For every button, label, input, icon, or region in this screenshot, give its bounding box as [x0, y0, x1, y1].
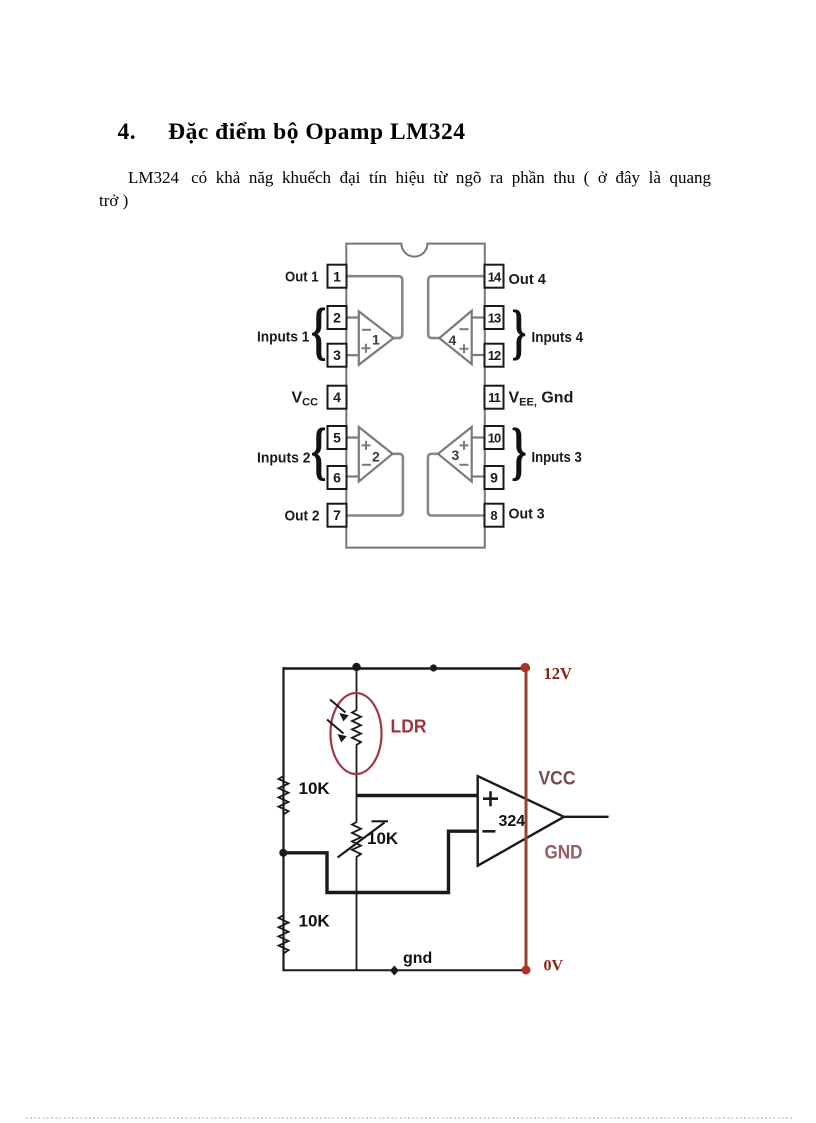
IC body: [346, 244, 485, 548]
wire pin2 stub: [347, 316, 360, 318]
wire bottom rail: [284, 969, 526, 971]
wire pin10 stub: [472, 436, 485, 438]
pin 5 box: [328, 426, 347, 449]
junction dot gnd: [390, 966, 399, 976]
svg-text:7: 7: [333, 507, 341, 523]
pin 4 box: [328, 386, 347, 409]
svg-text:12: 12: [488, 348, 501, 363]
svg-text:4: 4: [333, 389, 341, 405]
svg-text:Out 4: Out 4: [509, 271, 547, 288]
pin 9 box: [485, 466, 504, 489]
op-amp U3: [438, 427, 472, 482]
svg-text:324: 324: [499, 813, 526, 830]
svg-text:GND: GND: [545, 843, 583, 864]
paragraph line 1: [99, 168, 711, 188]
LM324 pinout diagram: [250, 236, 590, 552]
junction dot left divider: [279, 849, 287, 857]
footer dotted rule: [26, 1117, 792, 1119]
wire pin6 stub: [347, 475, 360, 477]
svg-text:Inputs 1: Inputs 1: [257, 329, 309, 346]
svg-text:Out 3: Out 3: [509, 506, 545, 523]
op-amp U1: [359, 311, 394, 364]
svg-text:1: 1: [333, 269, 341, 285]
junction dot top mid: [430, 664, 437, 671]
junction dot 12V: [521, 663, 530, 672]
LDR photoresistor body: [352, 668, 361, 796]
pin 10 box: [485, 426, 504, 449]
pin 12 box: [485, 344, 504, 367]
wire pin12 stub: [472, 354, 485, 356]
pin 6 box: [328, 466, 347, 489]
svg-text:}: }: [511, 415, 527, 487]
potentiometer arrow: [338, 823, 385, 858]
svg-text:10K: 10K: [367, 829, 399, 848]
heading: [118, 119, 466, 146]
wire 12V red rail: [525, 668, 528, 971]
wire pin1 feedback to op-amp U1 output: [347, 276, 403, 338]
LDR arrow 1: [330, 700, 346, 713]
svg-text:13: 13: [488, 311, 501, 326]
paragraph line 2: [99, 191, 128, 211]
svg-text:4: 4: [449, 332, 457, 348]
svg-text:12V: 12V: [544, 664, 573, 683]
wire op-amp U3 output to pin8: [428, 454, 485, 516]
pin 7 box: [328, 504, 347, 527]
junction dot 0V: [522, 966, 531, 975]
wire pin14 feedback to op-amp U4 output: [428, 276, 484, 338]
junction dot top LDR: [352, 663, 360, 671]
wire output: [564, 816, 609, 818]
svg-text:8: 8: [490, 508, 497, 523]
svg-text:Inputs 2: Inputs 2: [257, 450, 311, 467]
LDR arrow 2: [327, 720, 344, 734]
svg-text:5: 5: [333, 430, 341, 446]
wire top rail: [284, 667, 531, 669]
wire pin5 stub: [347, 436, 360, 438]
wire left rail: [282, 667, 284, 971]
pin 3 box: [328, 344, 347, 367]
svg-text:VEE, Gnd: VEE, Gnd: [509, 390, 574, 409]
svg-text:14: 14: [488, 270, 502, 285]
svg-text:LDR: LDR: [391, 717, 427, 737]
wire non-inverting input: [357, 794, 478, 798]
potentiometer VR1 10K: [352, 796, 361, 971]
svg-text:VCC: VCC: [292, 390, 319, 409]
svg-text:10: 10: [488, 431, 501, 446]
svg-text:Inputs 3: Inputs 3: [532, 449, 582, 466]
svg-text:2: 2: [372, 449, 380, 465]
svg-text:3: 3: [452, 447, 460, 463]
svg-text:1: 1: [372, 332, 380, 348]
svg-text:VCC: VCC: [539, 769, 576, 790]
wire pin9 stub: [472, 475, 485, 477]
svg-text:Inputs 4: Inputs 4: [532, 329, 584, 346]
svg-text:6: 6: [333, 470, 341, 486]
svg-text:10K: 10K: [299, 912, 331, 931]
resistor R1 10K: [279, 667, 289, 853]
svg-text:Out 1: Out 1: [285, 269, 319, 286]
pin 1 box: [328, 265, 347, 288]
svg-text:3: 3: [333, 347, 341, 363]
pin 13 box: [485, 306, 504, 329]
svg-text:{: {: [311, 295, 327, 367]
pin 11 box: [485, 386, 504, 409]
wire op-amp U2 output to pin7: [347, 454, 403, 516]
comparator schematic: [258, 652, 618, 982]
wire pin13 stub: [472, 316, 485, 318]
svg-text:10K: 10K: [299, 779, 331, 798]
op-amp U4: [439, 311, 471, 364]
op-amp plus sign: [483, 791, 498, 806]
svg-text:2: 2: [333, 310, 341, 326]
pin 2 box: [328, 306, 347, 329]
wire inverting input path: [284, 831, 478, 892]
svg-text:}: }: [512, 298, 527, 365]
svg-text:0V: 0V: [544, 958, 564, 975]
op-amp U2: [359, 427, 393, 482]
LDR ellipse: [331, 693, 382, 774]
resistor R2 10K: [279, 853, 289, 971]
pin 14 box: [485, 265, 504, 288]
svg-text:{: {: [311, 415, 327, 487]
svg-text:gnd: gnd: [403, 950, 432, 967]
wire pin3 stub: [347, 354, 360, 356]
pin 8 box: [485, 504, 504, 527]
svg-text:Out 2: Out 2: [285, 508, 320, 525]
svg-text:11: 11: [488, 390, 501, 405]
svg-text:9: 9: [490, 470, 498, 486]
op-amp 324 triangle: [478, 776, 564, 866]
op-amp minus sign: [482, 830, 495, 833]
